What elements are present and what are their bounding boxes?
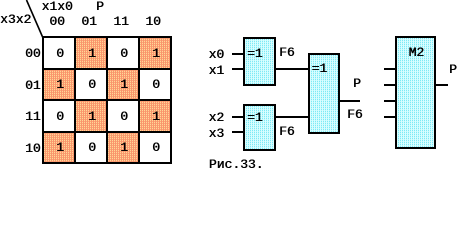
K-map header 11: [105, 15, 137, 28]
wire x2 to gate U2: [232, 116, 244, 118]
K-map cell value r1c0 = 1: [43, 69, 75, 101]
K-map shaded cell r0c1: [75, 37, 107, 69]
node label x1x0 (K-map column variables): [42, 0, 73, 13]
K-map cell value r3c1 = 0: [75, 132, 107, 164]
node P (function name above map): [96, 0, 104, 13]
K-map cell value r2c3 = 1: [139, 101, 171, 133]
K-map cell value r0c2 = 0: [107, 38, 139, 70]
K-map grid horizontal line 3: [42, 131, 172, 133]
wire M2 input 2: [384, 84, 396, 86]
gate U3 label =1: [312, 62, 328, 75]
wire U3 output: [340, 100, 361, 102]
module label M2: [409, 46, 425, 59]
K-map grid horizontal line 0: [42, 36, 172, 38]
wire M2 input 4: [384, 116, 396, 118]
K-map cell value r1c2 = 1: [107, 69, 139, 101]
K-map grid vertical line 0: [42, 36, 44, 164]
K-map shaded cell r1c2: [107, 69, 139, 101]
K-map cell value r2c1 = 1: [75, 101, 107, 133]
K-map shaded cell r2c1: [75, 100, 107, 132]
net label F6 (U3 output): [347, 108, 363, 121]
K-map header 00: [41, 15, 73, 28]
K-map shaded cell r3c2: [107, 132, 139, 164]
wire x0 to gate U1: [232, 53, 244, 55]
wire x3 to gate U2: [232, 131, 244, 133]
K-map shaded cell r3c0: [43, 132, 75, 164]
wire M2 input 3: [384, 100, 396, 102]
XOR gate U3 (second level): [308, 53, 340, 134]
net label F6 (U1 output): [279, 46, 295, 59]
node label P (M2 output): [449, 63, 457, 76]
module M2 block: [395, 36, 436, 150]
wire M2 output: [436, 84, 448, 86]
K-map row label 10: [25, 142, 40, 155]
XOR gate U2 (x2,x3): [243, 104, 276, 151]
wire M2 input 1: [384, 68, 396, 70]
K-map cell value r1c3 = 0: [139, 69, 171, 101]
K-map grid horizontal line 4: [42, 162, 172, 164]
gate U1 label =1: [247, 47, 263, 60]
K-map row label 00: [25, 47, 40, 60]
K-map shaded cell r0c3: [139, 37, 171, 69]
K-map grid vertical line 4: [170, 36, 172, 164]
K-map grid vertical line 3: [138, 36, 140, 164]
K-map cell value r0c0 = 0: [43, 38, 75, 70]
K-map grid vertical line 2: [106, 36, 108, 164]
K-map cell value r3c3 = 0: [139, 132, 171, 164]
XOR gate U1 (x0,x1): [243, 37, 276, 86]
node label P (U3 output): [353, 77, 361, 90]
net label F6 (U2 output): [279, 125, 295, 138]
input label x1: [209, 64, 225, 77]
caption Рис.33.: [209, 158, 264, 171]
K-map grid vertical line 1: [74, 36, 76, 164]
K-map header 10: [137, 15, 169, 28]
K-map cell value r1c1 = 0: [75, 69, 107, 101]
K-map cell value r0c3 = 1: [139, 38, 171, 70]
input label x2: [209, 111, 225, 124]
K-map cell value r2c2 = 0: [107, 101, 139, 133]
K-map grid horizontal line 1: [42, 68, 172, 70]
K-map row label 01: [25, 79, 40, 92]
node label x3x2 (K-map row variables): [0, 13, 31, 26]
K-map cell value r0c1 = 1: [75, 38, 107, 70]
K-map cell value r2c0 = 0: [43, 101, 75, 133]
input label x3: [209, 127, 225, 140]
K-map cell value r3c2 = 1: [107, 132, 139, 164]
K-map shaded cell r1c0: [43, 69, 75, 101]
K-map header 01: [73, 15, 105, 28]
gate U2 label =1: [247, 111, 263, 124]
wire U1 output to U3: [276, 68, 308, 70]
wire U2 output to U3: [276, 116, 308, 118]
K-map row label 11: [25, 110, 40, 123]
input label x0: [209, 48, 225, 61]
K-map shaded cell r2c3: [139, 100, 171, 132]
wire x1 to gate U1: [232, 68, 244, 70]
K-map grid horizontal line 2: [42, 99, 172, 101]
K-map cell value r3c0 = 1: [43, 132, 75, 164]
diagonal divider of K-map corner: [0, 0, 60, 40]
